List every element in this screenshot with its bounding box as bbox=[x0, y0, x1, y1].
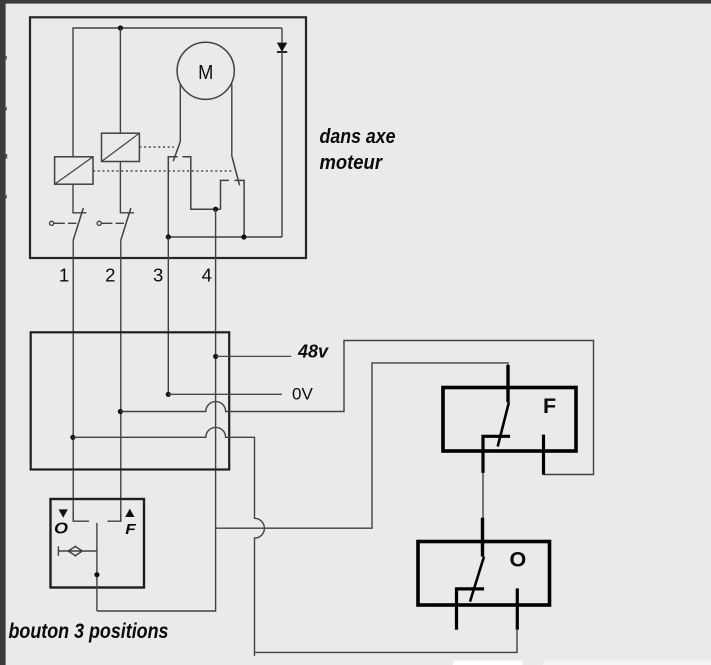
wire 0V bbox=[168, 393, 282, 395]
mechanical link K1/SQ2 (dotted) bbox=[93, 170, 232, 172]
F right terminal bbox=[542, 435, 545, 475]
wire 48v bbox=[216, 355, 292, 357]
node junction bus/SQ2 bbox=[241, 234, 246, 239]
node pole junction bbox=[94, 572, 99, 577]
wire O-hold line (with hops) bbox=[73, 427, 264, 656]
arrow up (F direction) bbox=[125, 509, 134, 517]
svg-text:48v: 48v bbox=[297, 342, 329, 362]
svg-text:moteur: moteur bbox=[320, 151, 383, 174]
limit switch SQ1 contact bbox=[168, 157, 220, 237]
wire 2 vertical bbox=[120, 28, 134, 213]
switch box F bbox=[443, 388, 576, 452]
wire bottom link bbox=[255, 630, 518, 653]
node wire2 branch bbox=[118, 409, 123, 414]
wire 1 vertical bbox=[73, 184, 86, 213]
svg-text:F: F bbox=[125, 521, 136, 538]
wire 2 lower bbox=[120, 240, 122, 521]
node junction wire4 bbox=[213, 207, 218, 212]
pushbutton box (bouton 3 positions) bbox=[51, 499, 145, 588]
O blade bbox=[470, 557, 484, 602]
svg-text:3: 3 bbox=[153, 265, 163, 286]
wire motor left lead bbox=[179, 84, 181, 142]
node junction bus/wire3 bbox=[166, 234, 171, 239]
mechanical link K2/SQ1 (dotted) bbox=[139, 146, 174, 148]
node 0V junction bbox=[166, 392, 171, 397]
relay coil K1 bbox=[55, 157, 93, 184]
svg-text:1: 1 bbox=[59, 265, 69, 286]
pole wire bbox=[96, 523, 98, 611]
enclosure box "dans axe moteur" bbox=[30, 17, 306, 258]
svg-text:0V: 0V bbox=[292, 384, 313, 403]
switch S1 terminal bbox=[50, 221, 54, 225]
svg-text:O: O bbox=[510, 548, 527, 572]
svg-text:O: O bbox=[54, 521, 69, 538]
contact stub O bbox=[73, 514, 89, 521]
svg-text:bouton 3 positions: bouton 3 positions bbox=[9, 619, 169, 643]
motor M1 bbox=[177, 42, 234, 99]
svg-text:4: 4 bbox=[202, 265, 212, 286]
switch box O bbox=[418, 542, 550, 606]
arrow down (O direction) bbox=[59, 509, 68, 517]
F top terminal bbox=[506, 365, 509, 402]
svg-text:F: F bbox=[543, 394, 556, 418]
switch S1 blade bbox=[73, 208, 83, 240]
wire 48v to F switch bbox=[216, 363, 508, 528]
wire 3 vertical bbox=[167, 237, 169, 394]
spring return symbol bbox=[58, 546, 97, 556]
switch S2 terminal bbox=[97, 221, 101, 225]
O left terminal bbox=[457, 589, 485, 630]
node junction wire2/top bus bbox=[118, 25, 123, 30]
node wire1 branch bbox=[70, 435, 75, 440]
svg-text:dans axe: dans axe bbox=[320, 125, 396, 148]
limit switch SQ2 contact bbox=[221, 180, 245, 237]
wire motor right lead bbox=[231, 84, 233, 156]
svg-text:2: 2 bbox=[105, 265, 115, 286]
wire 1 lower bbox=[72, 240, 74, 521]
node 48v junction bbox=[213, 354, 218, 359]
limit switch SQ1 blade bbox=[173, 142, 180, 162]
connector block box bbox=[31, 332, 230, 469]
O top terminal bbox=[481, 518, 484, 557]
limit switch SQ2 blade bbox=[232, 156, 240, 185]
O right terminal bbox=[516, 588, 519, 629]
F blade bbox=[498, 402, 509, 446]
wire bottom return bus bbox=[168, 236, 282, 238]
relay coil K2 bbox=[102, 133, 140, 161]
switch S2 blade bbox=[121, 208, 131, 240]
wire F-hold line (with hop) bbox=[120, 341, 593, 475]
F left terminal bbox=[483, 436, 510, 473]
wire 4 vertical bbox=[97, 209, 216, 611]
contact stub F bbox=[108, 514, 121, 521]
diode D1 bbox=[281, 28, 283, 43]
wire F to O bbox=[482, 473, 484, 518]
wire top bus bbox=[73, 28, 282, 157]
svg-text:M: M bbox=[198, 62, 213, 84]
